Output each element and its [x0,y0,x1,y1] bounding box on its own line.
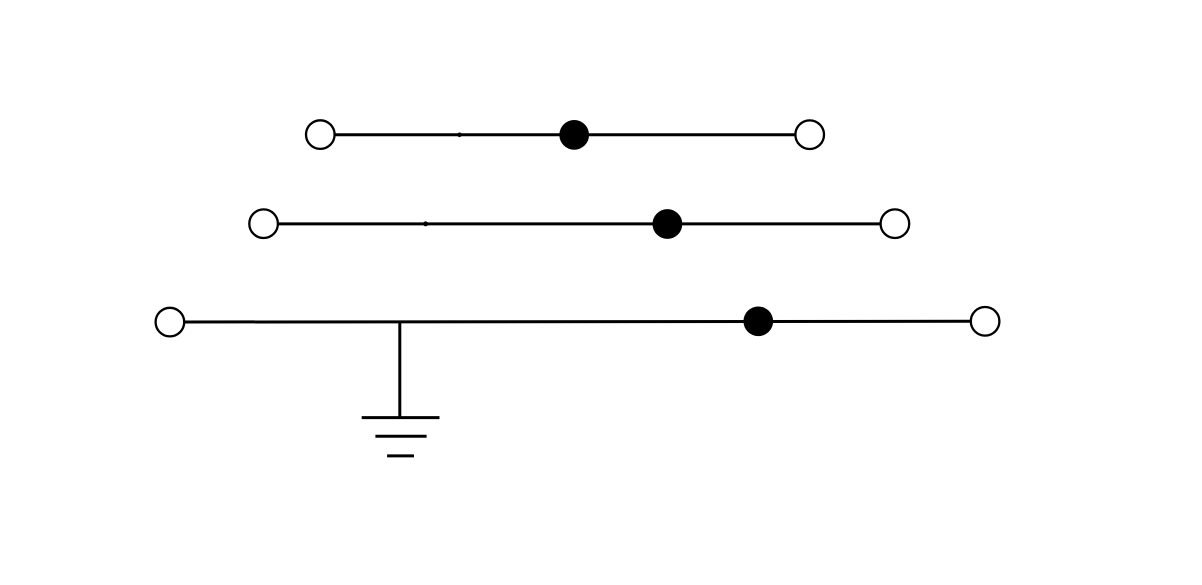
ground [362,418,440,456]
wire (vertical stem to ground) [398,322,401,418]
node (filled dot on top wire) [559,120,589,150]
terminal (top-left open circle) [306,120,335,149]
terminal (bottom-right open circle) [971,307,1000,336]
node (filled dot on middle wire) [653,209,683,239]
terminal (middle-left open circle) [249,209,278,238]
junction (small dot on middle wire) [423,221,428,226]
junction (small dot on top wire) [457,133,462,138]
terminal (middle-right open circle) [881,209,910,238]
wire (middle line) [278,222,881,225]
wire (bottom line) [184,320,970,324]
node (filled dot on bottom wire) [743,306,773,336]
terminal (top-right open circle) [795,120,824,149]
wire (top line) [335,133,796,136]
terminal (bottom-left open circle) [156,308,185,337]
